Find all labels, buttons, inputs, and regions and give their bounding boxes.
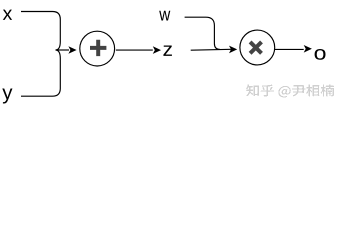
- plus sign: [90, 40, 106, 56]
- wire adder to z: [116, 49, 153, 51]
- wire multiplier to o: [275, 48, 304, 50]
- wire x to adder: [21, 12, 60, 50]
- node o label: [315, 49, 326, 60]
- wire y to adder: [21, 50, 60, 96]
- watermark zhihu: [246, 85, 334, 98]
- summing node circle: [80, 31, 115, 66]
- node y label: [2, 88, 12, 103]
- node x label: [3, 10, 12, 20]
- multiplier node circle: [240, 30, 275, 65]
- wire w to multiplier: [185, 17, 220, 49]
- wire z to multiplier: [191, 48, 231, 51]
- node z label: [163, 45, 172, 55]
- arrowhead into adder: [68, 46, 76, 54]
- wire merged into adder: [56, 49, 69, 51]
- arrowhead at z: [153, 46, 161, 54]
- times sign: [250, 42, 261, 53]
- arrowhead at o: [304, 45, 312, 53]
- arrowhead into multiplier: [229, 46, 237, 54]
- node w label: [159, 11, 170, 21]
